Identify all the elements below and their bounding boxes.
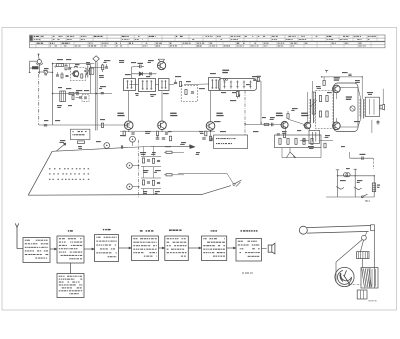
wire (IF emitter bus): [120, 130, 215, 132]
label detector: [222, 70, 229, 74]
wire (block2 drop): [70, 263, 72, 274]
wire (osc drop): [132, 66, 137, 78]
resistor R24: [78, 141, 85, 144]
resistor R10: [156, 131, 158, 136]
antenna (block diagram): [15, 223, 18, 248]
wire (tuner top bus): [53, 64, 91, 94]
capacitor C5: [101, 93, 104, 94]
coil L4: [60, 91, 66, 102]
wire transformer top: [361, 77, 363, 99]
arrow (switch wiper): [190, 145, 196, 149]
block 2 (mixer): [57, 236, 84, 263]
IF transformer S4: [209, 78, 220, 91]
resistor R7: [179, 82, 181, 87]
wire (FM feeder left): [94, 62, 96, 131]
wire (FM input link): [91, 66, 105, 68]
wire (output top rail): [322, 76, 363, 78]
wire (speaker drop): [382, 89, 384, 105]
label TS5 OC71: [301, 113, 308, 117]
loudspeaker (block diagram): [268, 243, 275, 254]
IF transformer S2: [139, 79, 156, 92]
wire (left bottom rail): [39, 124, 130, 126]
capacitor C14: [277, 133, 286, 137]
transistor TS7: [332, 122, 340, 130]
dashed box (osc unit): [82, 94, 89, 101]
transistor TS1: [124, 121, 133, 130]
transistor TS8: [287, 148, 296, 158]
capacitor C1: [68, 64, 71, 70]
transistor TS5: [303, 122, 310, 128]
label R196 90: [369, 301, 378, 303]
wire (misc interconnects): [0, 0, 373, 195]
driver transformer T1: [309, 99, 316, 123]
transistor TS4: [280, 121, 288, 128]
switch position dots: [49, 168, 89, 180]
resistor R11: [205, 131, 207, 136]
driver transformer T0: [309, 130, 320, 143]
resistor R15: [287, 111, 289, 118]
resistor R2: [65, 64, 67, 70]
transistor TS6: [332, 85, 340, 93]
tuner extra parts: [55, 66, 86, 100]
wire (tuner left rail): [52, 64, 54, 126]
trimmer C3: [85, 96, 86, 99]
wire (lamp right leg): [373, 176, 375, 197]
resistor R20: [326, 111, 328, 117]
capacitor C21: [121, 145, 122, 148]
resistor R26: [164, 174, 178, 176]
capacitor C2: [76, 92, 80, 98]
dashed box (RF amp unit): [71, 68, 86, 81]
label TS1 OC44: [117, 113, 124, 117]
wire (AM antenna dash-dot drop): [38, 64, 41, 125]
antenna mark: [38, 54, 40, 60]
wire TS2 collector: [161, 92, 163, 122]
label above block 4: [140, 230, 154, 231]
capacitor C22: [360, 154, 366, 160]
wire (bottom rail right): [300, 140, 333, 142]
block 1 (antenna input): [23, 238, 50, 263]
tuning drum: [361, 268, 378, 288]
ferrite rod antenna L1: [29, 60, 43, 73]
transistor TS9: [336, 184, 344, 190]
wire (ant to block 1): [17, 248, 23, 250]
wire (block7 to speaker): [262, 248, 267, 250]
switch contact S-d: [127, 184, 139, 190]
block 4 (IF amp 2): [132, 236, 159, 261]
cord (pulley to wheel): [336, 240, 362, 283]
switch contact S-b: [104, 143, 110, 149]
FM dipole antenna: [93, 56, 99, 62]
arrow 4-5: [159, 247, 165, 249]
junction dots (det box): [223, 79, 227, 81]
label above block 2: [68, 230, 73, 231]
wire (lamp mid leg): [354, 169, 357, 197]
wire (osc line): [132, 73, 157, 75]
resistor R23: [209, 136, 211, 141]
svg-text:R196 90: R196 90: [369, 301, 378, 303]
resistor R16: [323, 77, 325, 86]
transistor TS7b: [350, 106, 355, 111]
ground mark: [325, 70, 328, 72]
wire (TS4-TS5): [288, 119, 304, 124]
diode D1: [139, 72, 142, 76]
switch S2: [361, 194, 367, 198]
capacitor C6: [44, 125, 47, 126]
drum shaft block: [357, 290, 367, 299]
capacitor C4: [105, 64, 108, 68]
resistor R25: [164, 151, 178, 153]
resistor R19: [319, 111, 321, 117]
dial lamp LA1: [344, 173, 351, 177]
capacitor C7 with label: [137, 63, 144, 68]
wire (lamp feed): [350, 157, 374, 159]
resistor R18: [326, 96, 328, 102]
wire (lamp circuit top): [338, 175, 375, 177]
resistor R9: [123, 131, 125, 136]
coil L2: [57, 64, 64, 67]
arrow 6-7: [227, 247, 236, 249]
dashed box (IF amp unit): [181, 85, 197, 101]
coil data table (upper strip): [30, 35, 386, 41]
capacitor C8: [150, 72, 151, 75]
loudspeaker LS1: [380, 104, 385, 110]
arrow 1-2: [50, 248, 57, 250]
filter cluster 1: [141, 157, 161, 167]
wire (switch top edge): [52, 146, 150, 151]
capacitor C11: [131, 133, 134, 134]
wire (AF line): [245, 124, 281, 126]
resistor R21: [324, 143, 326, 148]
label above block 3: [103, 229, 111, 230]
arrow (band switch): [57, 143, 66, 151]
resistor R4: [69, 92, 74, 94]
arrow 5-6: [188, 247, 201, 249]
switch contact S-c: [127, 163, 139, 169]
capacitor C12: [165, 133, 168, 134]
wire (lamp left leg): [336, 170, 339, 197]
wire TS6 collector: [340, 88, 361, 100]
switch S-onoff: [233, 180, 242, 187]
transistor TS-osc: [157, 59, 165, 69]
wire TS3 collector: [210, 91, 212, 122]
resistor R22: [169, 136, 171, 141]
transistor TS-RF: [72, 71, 79, 77]
wire (tone bottom): [282, 148, 321, 158]
filter cluster 2: [141, 178, 161, 189]
block 5 (detector): [165, 236, 189, 261]
label TS3 OC45: [216, 113, 223, 117]
resistor R17: [319, 96, 321, 102]
output transformer T2: [359, 99, 366, 119]
capacitor C18: [162, 138, 165, 139]
cord (right drop): [373, 231, 375, 288]
resistor R13: [264, 124, 269, 126]
IF transformer S1: [124, 79, 136, 91]
coil data table (lower strip): [30, 42, 386, 48]
box (output pair unit): [334, 83, 359, 132]
block 6 (AF driver): [202, 236, 227, 261]
variable inductor L3: [85, 66, 91, 78]
capacitor C16: [302, 140, 305, 141]
cord (spring to drum): [362, 259, 364, 268]
label above block 7: [241, 230, 258, 231]
wire (AGC dashed): [244, 91, 246, 136]
wire TS5 collector: [211, 92, 308, 137]
label TS4 OC71: [276, 113, 283, 117]
cord (to spring): [361, 240, 364, 251]
capacitor C19: [202, 138, 205, 139]
dial pointer rail: [299, 225, 374, 240]
detector filter box: [219, 79, 257, 91]
arrow 3-4: [119, 247, 132, 249]
switch contact S-a: [130, 136, 136, 146]
resistor R6: [101, 123, 103, 127]
block 8 (oscillator note): [57, 274, 84, 298]
wire (lamp circuit bottom): [326, 196, 374, 198]
box (tone network): [275, 135, 322, 148]
wire (tuner mid bus): [53, 93, 113, 95]
label R 196 19: [242, 271, 253, 275]
cord (dash link): [348, 283, 361, 285]
transistor TS10: [354, 187, 362, 190]
wire TS7 collector: [340, 119, 361, 128]
capacitor C20: [211, 138, 212, 141]
IF transformer S3: [159, 79, 170, 91]
wire (switch dash-dot): [138, 140, 140, 198]
box (output network): [365, 97, 379, 116]
resistor R12: [236, 91, 238, 99]
box (coil pack detail): [70, 129, 90, 139]
resistor R5: [102, 64, 104, 72]
label TS6 OC72: [334, 77, 340, 81]
svg-text:R 196 19: R 196 19: [242, 271, 253, 275]
label TS2 OC45: [170, 113, 177, 117]
label above block 5: [169, 230, 182, 231]
capacitor C15: [348, 74, 351, 75]
wire TS1 collector: [128, 91, 130, 122]
wire (output drops): [372, 120, 380, 133]
label TS7 OC72: [346, 96, 352, 100]
resistor R27: [372, 183, 380, 192]
component value labels: [43, 59, 373, 194]
detector out parts: [253, 76, 261, 82]
wire (det out): [257, 81, 261, 125]
coil L5: [90, 68, 94, 74]
block 7 (output stage): [236, 239, 262, 262]
trimmer R1: [44, 70, 48, 75]
wire (switch bus): [150, 145, 190, 147]
block 3 (IF amp 1): [95, 235, 119, 262]
capacitor C17: [156, 135, 159, 139]
tension spring: [357, 252, 369, 259]
arrow 2-3: [84, 248, 95, 250]
resistor R3: [81, 74, 83, 78]
arrow (det drop): [238, 91, 240, 98]
capacitor C13: [272, 123, 273, 127]
volume control R14: [311, 92, 317, 114]
dashed box (output unit): [316, 90, 333, 128]
band switch plate: [28, 151, 231, 195]
label above block 6: [211, 230, 217, 231]
label 7B13: [365, 201, 371, 203]
capacitor C9: [174, 80, 177, 84]
tuning wheel: [335, 267, 354, 286]
svg-text:7B13: 7B13: [365, 201, 371, 203]
wire (antenna to tuner): [39, 71, 52, 73]
transistor TS3: [206, 122, 215, 131]
capacitor C10: [191, 92, 194, 93]
box (AGC detail): [214, 135, 248, 149]
transistor TS2: [158, 121, 167, 130]
resistor R8: [185, 90, 187, 95]
wire (FM feeder right): [96, 62, 98, 131]
